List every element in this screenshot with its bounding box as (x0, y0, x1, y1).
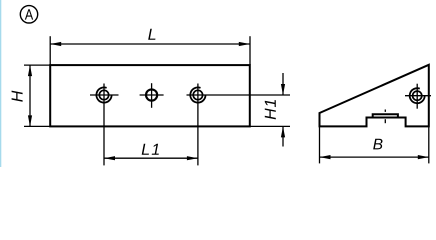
side view key boss (373, 114, 398, 117)
thread hole 1 centerline horizontal (90, 94, 119, 96)
side view slot centerline lower dash (384, 119, 386, 123)
thread hole 3 centerline vertical (197, 84, 199, 166)
side view thread hole centerline horizontal (405, 95, 431, 97)
thread hole 3 centerline horizontal, extends right as H1 extension (187, 94, 291, 96)
dimension H1 extension line bottom (250, 125, 290, 127)
dimension L extension line right (249, 36, 251, 65)
view label circle A (20, 6, 37, 23)
thread hole 1 centerline vertical (103, 84, 105, 166)
dimension H line (28, 65, 32, 126)
dimension L extension line left (49, 36, 51, 65)
side view thread hole (410, 88, 425, 103)
dimension B line (320, 155, 429, 159)
page accent border line (left edge, light cyan) (0, 0, 1, 167)
label L1 (142, 144, 159, 155)
plain hole 2 centerline horizontal (140, 94, 164, 96)
label H1 (265, 100, 276, 119)
dimension L line (50, 42, 250, 46)
label B (373, 139, 382, 150)
dimension H extension line bottom (24, 125, 50, 127)
plain hole 2 (146, 89, 157, 100)
thread hole 3 (190, 87, 205, 102)
dimension L1 line (104, 156, 198, 160)
thread hole 1 (96, 87, 111, 102)
dimension H extension line top (24, 64, 50, 66)
label H (12, 91, 23, 102)
side view outline with bottom T-groove (320, 65, 429, 127)
side view thread hole centerline vertical (416, 84, 418, 109)
side view groove floor line (367, 117, 406, 119)
dimension H1 line with outside arrows (281, 73, 285, 147)
front view outline (50, 65, 250, 126)
plain hole 2 centerline vertical (151, 83, 153, 108)
side view slot centerline (dashed) (384, 110, 386, 112)
dimension B extension line left (319, 126, 321, 163)
dimension B extension line right (428, 126, 430, 163)
label L (148, 29, 155, 40)
